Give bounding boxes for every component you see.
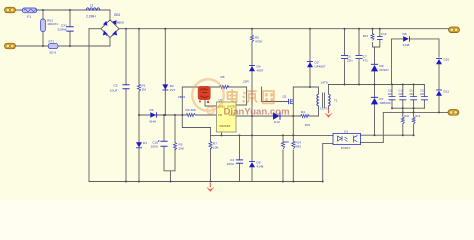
- ground (primary, red): [206, 183, 214, 192]
- svg-text:0B22: 0B22: [178, 95, 186, 99]
- wire top AC line: [15, 9, 110, 11]
- junction (175,115): [174, 114, 176, 116]
- junction (283,181.5): [282, 181, 284, 183]
- svg-text:10TS: 10TS: [320, 107, 327, 111]
- svg-text:10D471: 10D471: [47, 22, 58, 26]
- junction (392,84.5): [391, 84, 393, 86]
- wire top AC drop to bridge: [109, 10, 111, 21]
- wire lower loop bus y=135.2: [360, 134, 413, 136]
- junction (310,28.7): [309, 28, 311, 30]
- diode D12 (vdd): [273, 112, 280, 124]
- junction (252,135.4): [251, 134, 253, 136]
- junction (182.3,115): [181, 114, 183, 116]
- wire drain to primary top: [293, 87, 318, 94]
- junction (372.5,28.7): [372, 28, 374, 30]
- capacitor C10: [151, 140, 168, 149]
- svg-text:22N: 22N: [347, 59, 353, 63]
- junction (252,28.7): [251, 28, 253, 30]
- svg-text:100U: 100U: [227, 162, 234, 166]
- svg-text:2.2MH: 2.2MH: [86, 15, 96, 19]
- junction (439,112.4): [438, 111, 440, 113]
- wire bulk cap column x=126: [125, 29, 127, 182]
- svg-text:SB5100: SB5100: [380, 101, 391, 105]
- junction (413.6,112.4): [413, 111, 415, 113]
- svg-text:D12: D12: [274, 120, 280, 124]
- svg-text:U3: U3: [344, 129, 348, 133]
- junction (283,135.4): [282, 134, 284, 136]
- wire bleeder branches: [403, 108, 414, 135]
- wire Q1 source down: [292, 116, 294, 181]
- wire bridge bottom vertex drop: [109, 38, 111, 47]
- svg-text:R4: R4: [301, 110, 305, 114]
- junction (170.5,181.5): [170, 181, 172, 183]
- junction (126,28.7): [125, 28, 127, 30]
- resistor R12: [412, 114, 421, 124]
- watermark red glyph: [198, 86, 211, 103]
- resistor R11: [401, 114, 409, 124]
- wire primary bottom drop x=318.5: [318, 106, 320, 116]
- wire D5 column x=252: [251, 135, 253, 181]
- wire IC bottom pin: [221, 132, 223, 135]
- svg-text:PC817: PC817: [341, 146, 351, 150]
- junction (379.8,28.7): [379, 28, 381, 30]
- svg-text:R13: R13: [363, 34, 369, 38]
- wire clamp column x=310: [309, 29, 311, 87]
- svg-text:220: 220: [409, 92, 414, 96]
- svg-text:R8: R8: [285, 140, 289, 144]
- watermark logo ring: [192, 79, 224, 114]
- diode D3 (clamp): [307, 61, 326, 69]
- resistor R7: [209, 142, 220, 150]
- junction (139,181.5): [138, 181, 140, 183]
- svg-text:MB6S: MB6S: [116, 20, 124, 24]
- wire drop to lower loop x=383.3: [360, 112, 383, 142]
- svg-text:22R: 22R: [243, 80, 249, 84]
- svg-text:220: 220: [420, 92, 425, 96]
- junction (322.7,181.5): [322, 181, 324, 183]
- capacitor C7: [356, 55, 369, 64]
- diode D7 (SB5100): [371, 97, 391, 105]
- junction (344.5,84.5): [344, 84, 346, 86]
- svg-text:471: 471: [363, 59, 368, 63]
- diode D6: [149, 108, 157, 124]
- junction (252,116): [251, 115, 253, 117]
- wire varistor column: [42, 10, 44, 46]
- diode D11: [436, 90, 449, 96]
- wire sense column x=283: [282, 135, 284, 181]
- svg-text:1K5: 1K5: [305, 123, 311, 127]
- svg-text:14TS: 14TS: [321, 81, 328, 85]
- resistor R3: [173, 143, 185, 151]
- wire startup column lower x=252: [251, 116, 253, 135]
- junction (310,87): [309, 86, 311, 88]
- svg-text:Q1: Q1: [283, 95, 287, 99]
- svg-text:RT1: RT1: [49, 40, 55, 44]
- wire cap bottom bus y=108.2: [392, 107, 424, 109]
- svg-text:4148: 4148: [403, 43, 410, 47]
- wire rectifier column x=375.5: [374, 72, 376, 136]
- snubber resistor R13: [363, 34, 374, 41]
- connector P1 (AC live): [5, 7, 16, 13]
- wires base group: [15, 10, 449, 182]
- svg-text:L1: L1: [90, 3, 94, 7]
- capacitor C12: [399, 89, 407, 100]
- wire secondary bottom: [328, 106, 330, 109]
- svg-text:4007: 4007: [257, 69, 264, 73]
- junction (293.3,181.5): [292, 181, 294, 183]
- junction (221.5,135.4): [221, 134, 223, 136]
- wire IC GND pin lead: [205, 87, 217, 106]
- junction (139,28.7): [138, 28, 140, 30]
- junction (413.6,135.2): [413, 134, 415, 136]
- svg-text:DianYuan.com: DianYuan.com: [224, 107, 290, 118]
- junction (402.8,108.2): [402, 107, 404, 109]
- junction (293.3,135.4): [292, 134, 294, 136]
- wire secondary top: [328, 85, 330, 95]
- svg-text:220: 220: [388, 92, 393, 96]
- junction (293.3,116): [292, 115, 294, 117]
- svg-text:D11: D11: [444, 90, 450, 94]
- wire main DC rail: [119, 28, 449, 30]
- svg-text:D1: D1: [143, 141, 147, 145]
- varistor RV1: [41, 19, 59, 32]
- capacitor C15: [420, 89, 428, 100]
- svg-text:C13: C13: [381, 32, 387, 36]
- wire zener column x=165: [164, 29, 166, 115]
- svg-text:F1: F1: [27, 15, 31, 19]
- resistor R1: [137, 84, 146, 92]
- connector CON2 (output -): [448, 110, 459, 116]
- junction (374.5,84.5): [374, 84, 376, 86]
- capacitor C5 (bulk): [110, 84, 130, 93]
- svg-text:4V7: 4V7: [170, 88, 176, 92]
- wire bridge minus to left: [89, 28, 101, 30]
- junction (344.5,28.7): [344, 28, 346, 30]
- diode D5: [249, 161, 264, 169]
- svg-text:R6: R6: [221, 75, 225, 79]
- junction (413.6,108.2): [413, 107, 415, 109]
- junction (43,10): [42, 9, 44, 11]
- svg-text:470K: 470K: [255, 40, 263, 44]
- wire gate drive to Q1: [262, 87, 287, 102]
- wire bottom AC line: [15, 45, 110, 47]
- junction (165.3,28.7): [164, 28, 166, 30]
- svg-text:1M: 1M: [142, 88, 147, 92]
- wire resistor column x=139: [138, 29, 140, 182]
- capacitor C11: [388, 89, 396, 100]
- svg-text:D10: D10: [444, 58, 450, 62]
- diode D10: [436, 58, 449, 65]
- bridge rectifier DB1: [101, 13, 124, 38]
- svg-text:220NK: 220NK: [58, 27, 68, 31]
- junction (374.5,135.2): [374, 134, 376, 136]
- junction (402.8,135.2): [402, 134, 404, 136]
- optocoupler U3: [333, 129, 361, 150]
- wire gnd drop at x=322.7: [323, 143, 333, 181]
- connector P2 (AC neutral): [5, 43, 16, 49]
- svg-text:FR107: FR107: [380, 68, 390, 72]
- junction (402.8,84.5): [402, 84, 404, 86]
- svg-text:220: 220: [399, 92, 404, 96]
- svg-text:UF4007: UF4007: [315, 65, 326, 69]
- svg-text:R9 30K: R9 30K: [186, 108, 197, 112]
- wire C7 column x=359: [358, 29, 360, 85]
- capacitor C4: [227, 158, 244, 166]
- resistor R2 (startup): [250, 35, 263, 44]
- transformer T1: [317, 81, 338, 111]
- junction (165.3,115): [164, 114, 166, 116]
- ground (secondary, red): [324, 109, 332, 118]
- sense resistor R8: [281, 140, 289, 149]
- junction (126,181.5): [125, 181, 127, 183]
- svg-text:4148: 4148: [149, 120, 156, 124]
- svg-text:5D-9: 5D-9: [50, 51, 57, 55]
- wire snubber loop: [373, 29, 380, 64]
- junction (359,28.7): [358, 28, 360, 30]
- wire FB row y=115: [139, 114, 217, 116]
- watermark chinese characters (vector): [228, 89, 274, 103]
- svg-text:T1: T1: [334, 99, 338, 103]
- svg-text:DB1: DB1: [114, 13, 121, 17]
- IC U1: [217, 98, 237, 132]
- snubber capacitor C13: [377, 32, 387, 39]
- junction (239.5,135.4): [239, 134, 241, 136]
- capacitor CX1: [58, 24, 74, 32]
- wire bottom rail: [89, 181, 323, 183]
- inductor L1: [86, 3, 100, 18]
- diode D9: [371, 64, 389, 72]
- wire top aux branch y=38.9: [392, 39, 440, 85]
- junction (359,84.5): [358, 84, 360, 86]
- junction (70,46): [69, 45, 71, 47]
- connector CON1 (output +): [449, 27, 460, 33]
- thermistor RT1: [48, 40, 58, 55]
- diode D4: [249, 65, 264, 73]
- wire gnd net left leg x=182: [182, 87, 210, 128]
- svg-text:4148: 4148: [257, 165, 264, 169]
- junction (164,115): [163, 114, 165, 116]
- fuse F1: [22, 8, 37, 19]
- wire X-cap column: [69, 10, 71, 46]
- wire Q1 drain column: [292, 87, 294, 116]
- capacitor C14: [409, 89, 417, 100]
- junction (210.5,181.5): [210, 181, 212, 183]
- wire C6 column x=344.5: [344, 29, 346, 85]
- wire output line y=112.4: [383, 111, 448, 113]
- resistor R4 (vdd row): [301, 110, 311, 127]
- wire IC GATE pin lead: [236, 87, 247, 105]
- wire gnd return row y=135.4: [211, 134, 334, 136]
- wire secondary bus y=84.5: [329, 84, 425, 86]
- zener D1: [136, 141, 147, 148]
- wire diode column x=439: [438, 39, 440, 113]
- resistor R6 (gate row): [220, 75, 250, 88]
- junction (392,108.2): [391, 107, 393, 109]
- svg-text:R11: R11: [405, 114, 410, 118]
- svg-text:R12: R12: [415, 114, 420, 118]
- svg-text:10K: 10K: [213, 146, 219, 150]
- wire R7 column x=210.5: [210, 128, 212, 182]
- resistor R9 (FB): [186, 108, 197, 116]
- svg-text:D6: D6: [150, 108, 154, 112]
- junction (413.6,84.5): [413, 84, 415, 86]
- wire gate top row y=87: [182, 86, 246, 88]
- wire primary ground drop x=89: [88, 29, 90, 182]
- sense resistor R14: [292, 141, 302, 149]
- wire VDD row y=116: [236, 115, 319, 117]
- svg-text:C5: C5: [114, 84, 118, 88]
- junction (43,46): [42, 45, 44, 47]
- svg-text:OB2538: OB2538: [219, 124, 230, 128]
- transistor Q1: [283, 95, 294, 105]
- svg-text:0R5: 0R5: [296, 145, 302, 149]
- svg-text:20K: 20K: [179, 147, 185, 151]
- junction (139,115): [138, 114, 140, 116]
- diode D8: [403, 32, 410, 47]
- svg-text:FB: FB: [218, 113, 222, 117]
- svg-text:100U: 100U: [151, 145, 158, 149]
- wire C10 column x=164: [164, 115, 175, 181]
- wire C4 column x=239.5: [239, 135, 241, 181]
- junction (70,10): [69, 9, 71, 11]
- wire startup column x=252: [251, 29, 253, 116]
- svg-text:10UF: 10UF: [110, 89, 118, 93]
- junction (205,87): [204, 86, 206, 88]
- wire R3 column x=175: [174, 115, 176, 171]
- junction (402.8,112.4): [402, 111, 404, 113]
- svg-text:D8: D8: [403, 32, 407, 36]
- capacitor C6: [341, 55, 353, 64]
- wire cap bank columns: [392, 85, 424, 109]
- zener D2: [162, 84, 175, 92]
